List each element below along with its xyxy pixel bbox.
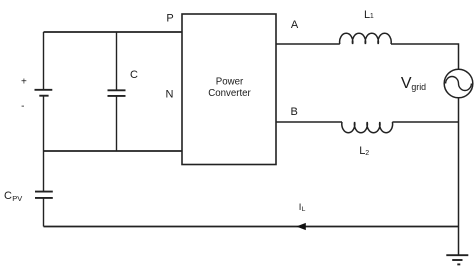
node A <box>291 19 299 31</box>
ground <box>446 227 468 265</box>
label IL <box>299 202 306 213</box>
wire grid down rail <box>458 98 460 227</box>
svg-text:grid: grid <box>411 82 426 92</box>
wire top rail node P <box>44 31 183 33</box>
svg-text:V: V <box>401 75 412 92</box>
capacitor C <box>108 32 126 151</box>
wire N rail <box>44 150 183 152</box>
svg-text:C: C <box>130 69 138 81</box>
wire output B <box>276 121 342 123</box>
label L1 <box>364 9 374 21</box>
label L2 <box>359 145 369 157</box>
label plus <box>21 76 27 87</box>
label minus <box>21 101 24 112</box>
label C <box>130 69 138 81</box>
svg-text:Converter: Converter <box>208 88 251 99</box>
wire bottom return rail <box>44 226 459 228</box>
current arrow IL <box>296 223 306 230</box>
svg-text:A: A <box>291 19 299 31</box>
wire output A <box>276 43 340 45</box>
node N <box>166 89 174 101</box>
svg-text:2: 2 <box>365 150 369 157</box>
svg-text:P: P <box>166 13 173 25</box>
label Vgrid <box>401 75 426 92</box>
node P <box>166 13 173 25</box>
inductor L2 <box>342 122 393 133</box>
svg-text:L: L <box>302 206 306 213</box>
svg-text:1: 1 <box>370 13 374 20</box>
node B <box>291 106 298 118</box>
capacitor CPV <box>35 151 53 227</box>
AC source Vgrid <box>444 69 473 98</box>
svg-text:+: + <box>21 76 27 87</box>
svg-text:PV: PV <box>12 194 22 203</box>
power converter U1 <box>182 14 276 165</box>
svg-text:N: N <box>166 89 174 101</box>
svg-text:B: B <box>291 106 298 118</box>
svg-text:Power: Power <box>216 77 244 88</box>
inductor L1 <box>340 33 392 44</box>
label CPV <box>4 190 22 203</box>
wire B to grid <box>392 121 458 123</box>
wire A to grid <box>391 44 459 69</box>
battery PV source <box>35 32 53 151</box>
svg-text:C: C <box>4 190 12 202</box>
svg-text:-: - <box>21 101 24 112</box>
